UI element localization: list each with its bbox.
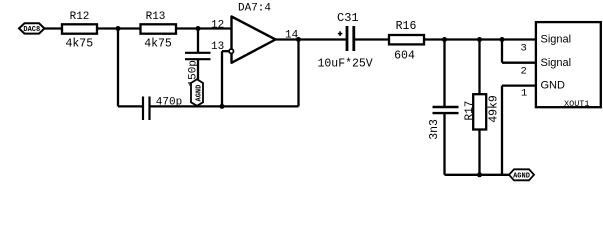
wire R13 to op-amp pin 12: [176, 27, 232, 29]
wire pin13 stub: [222, 50, 229, 52]
capacitor 3n3: [428, 107, 459, 140]
svg-text:R12: R12: [70, 11, 90, 23]
ground tag AGND vertical: [191, 79, 203, 106]
wire ground bottom: [445, 174, 510, 176]
port tag DAC8: [19, 23, 45, 34]
svg-text:1: 1: [521, 87, 527, 99]
svg-text:604: 604: [394, 49, 415, 62]
node junction pin13/feedback: [220, 104, 225, 109]
node junction R17/ground wire: [477, 172, 482, 177]
svg-text:12: 12: [211, 19, 224, 31]
resistor R16: [389, 20, 424, 62]
svg-text:10uF*25V: 10uF*25V: [318, 58, 373, 71]
wire R16 to connector: [424, 38, 536, 40]
wire DAC8 to R12: [45, 27, 63, 29]
wire C31 to R16: [355, 38, 389, 40]
wire pin1 stub: [502, 84, 536, 86]
wire pin2 vertical: [501, 40, 503, 63]
wire output: [276, 38, 347, 40]
node junction pin2 branch: [500, 37, 505, 42]
svg-text:Signal: Signal: [541, 57, 572, 69]
wire R17 top: [478, 40, 480, 95]
wire pin1 vertical: [501, 86, 503, 175]
node A junction R12/R13/470p: [116, 26, 121, 31]
connector XOUT1: [536, 22, 601, 109]
wire feedback vertical right: [297, 40, 299, 107]
svg-text:DA7:4: DA7:4: [238, 3, 271, 15]
svg-text:DAC8: DAC8: [23, 26, 40, 34]
node junction R17 branch: [477, 37, 482, 42]
wire 3n3 bottom: [443, 114, 445, 175]
wire feedback bottom right: [151, 105, 299, 107]
node B junction pin12/150p: [196, 26, 201, 31]
inverting input bubble: [229, 49, 233, 53]
svg-text:2: 2: [521, 65, 527, 77]
svg-text:R17: R17: [464, 101, 476, 121]
svg-text:R13: R13: [146, 11, 166, 23]
svg-text:AGND: AGND: [513, 172, 530, 180]
svg-text:C31: C31: [337, 11, 359, 25]
capacitor 150p: [185, 53, 211, 87]
wire R12 to R13: [97, 27, 141, 29]
wire pin13 vertical: [221, 51, 223, 106]
svg-text:R16: R16: [396, 20, 417, 33]
wire feedback bottom left: [118, 105, 142, 107]
svg-text:49k9: 49k9: [487, 95, 500, 123]
resistor R12: [62, 11, 97, 50]
svg-text:4k75: 4k75: [144, 38, 172, 51]
svg-text:GND: GND: [541, 80, 566, 92]
ground tag AGND horizontal: [509, 169, 534, 180]
svg-text:AGND: AGND: [195, 85, 203, 102]
resistor R17: [464, 94, 500, 129]
wire pin2 stub: [502, 62, 536, 64]
svg-text:13: 13: [211, 41, 224, 53]
capacitor C31 polarized: [318, 11, 373, 71]
svg-text:3: 3: [521, 42, 527, 54]
svg-text:4k75: 4k75: [65, 38, 93, 51]
svg-text:3n3: 3n3: [428, 119, 441, 140]
op-amp DA7:4: [232, 3, 276, 63]
svg-text:Signal: Signal: [541, 34, 572, 46]
wire R17 bottom: [478, 130, 480, 175]
svg-text:XOUT1: XOUT1: [564, 99, 590, 109]
capacitor 470p: [143, 97, 182, 121]
node junction output/feedback: [296, 37, 301, 42]
wire 150p branch top: [197, 29, 199, 53]
wire feedback vertical left: [117, 29, 119, 107]
wire 150p to AGND tag: [197, 59, 199, 80]
node junction 3n3 branch: [442, 37, 447, 42]
wire 3n3 top: [443, 40, 445, 107]
resistor R13: [141, 11, 177, 50]
